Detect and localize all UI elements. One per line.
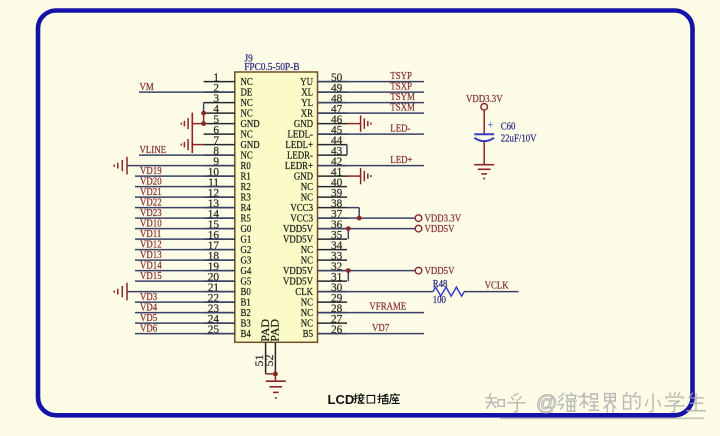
wire VD22 (pin 13)	[135, 207, 235, 209]
wire TSXM (pin 47)	[318, 112, 425, 114]
pin 33 (NC)	[301, 250, 347, 266]
wire VD5 (pin 24)	[135, 322, 235, 324]
pin 22 (B1)	[204, 292, 251, 308]
resistor R48	[433, 287, 464, 296]
pin 31 (VDD5V)	[283, 271, 347, 287]
wire VFRAME (pin 28)	[318, 312, 425, 314]
pin 12 (R3)	[204, 187, 251, 203]
net label VD3	[140, 291, 157, 303]
pin 23 (B2)	[204, 303, 251, 319]
power port VDD5V (pin 36)	[415, 223, 455, 235]
net label VD12	[140, 239, 162, 251]
wire pin 46 to ground	[347, 123, 361, 125]
wire VDD3.3V to C60	[483, 110, 485, 134]
pin 24 (B3)	[204, 313, 251, 329]
junction pin 32	[346, 268, 351, 273]
capacitor C60	[474, 120, 494, 142]
net label VFRAME	[369, 301, 406, 313]
power port VDD3.3V (pin 37)	[415, 213, 462, 225]
power port VDD3.3V (C60)	[466, 93, 503, 110]
value 22uF/10V	[501, 133, 538, 145]
net label VD4	[140, 302, 157, 314]
net label VD7	[372, 322, 389, 334]
pin 6 (NC)	[204, 124, 254, 140]
part type FPC0.5-50P-B	[244, 62, 299, 74]
label R48	[433, 278, 448, 290]
connector J9 body	[235, 72, 318, 342]
svg-text:VD7: VD7	[372, 322, 389, 334]
wire R48 to VCLK	[464, 291, 519, 293]
wire VLINE (pin 8)	[139, 154, 235, 156]
wire LED- (pin 45)	[318, 133, 425, 135]
wire C60 to ground	[483, 142, 485, 165]
net label LED+	[390, 154, 413, 166]
svg-text:TSXM: TSXM	[390, 102, 415, 114]
net label VM	[140, 81, 154, 93]
pin 40 (NC)	[301, 177, 347, 193]
wire VD7 (pin 26)	[318, 333, 425, 335]
wire LED+ (pin 42)	[318, 165, 425, 167]
svg-text:VM: VM	[140, 81, 154, 93]
net label VD6	[140, 323, 157, 335]
wire VD19 (pin 10)	[135, 175, 235, 177]
net label VD19	[140, 165, 162, 177]
wire VD15 (pin 20)	[135, 280, 235, 282]
junction pin 4	[201, 111, 206, 116]
wire pin 9 to ground	[127, 165, 235, 167]
wire pin 21 to ground	[127, 291, 235, 293]
net label VD5	[140, 312, 157, 324]
wire pins 3-4-5 tie	[203, 103, 205, 124]
svg-text:+: +	[487, 120, 493, 132]
ground pin 46	[361, 115, 371, 131]
wire TSYM (pin 48)	[318, 102, 425, 104]
pin 27 (NC)	[301, 313, 347, 329]
pin 1 (NC)	[204, 72, 254, 88]
wire gnd stub pin 7	[192, 144, 203, 146]
wire VD6 (pin 25)	[135, 333, 235, 335]
pin 36 (VDD5V)	[283, 219, 347, 235]
svg-text:C60: C60	[501, 121, 516, 133]
pin 44 (LEDL+)	[285, 135, 347, 151]
ground symbol pin 5	[181, 118, 188, 129]
pin 35 (VDD5V)	[283, 229, 347, 245]
svg-text:22uF/10V: 22uF/10V	[501, 133, 538, 145]
svg-text:100: 100	[433, 294, 446, 306]
pin 14 (R5)	[204, 208, 251, 224]
pin 13 (R4)	[204, 198, 251, 214]
power port VDD5V (pin 32)	[415, 265, 455, 277]
svg-text:VCLK: VCLK	[485, 280, 510, 292]
svg-text:B5: B5	[303, 328, 313, 340]
wire pins 44-43 tie	[346, 145, 348, 156]
wire pin 41 to ground	[347, 175, 361, 177]
pin 19 (G4)	[204, 261, 252, 277]
pin 49 (XL)	[301, 82, 347, 98]
junction pin 36	[346, 226, 351, 231]
svg-text:VD6: VD6	[140, 323, 157, 335]
pin 34 (NC)	[301, 240, 347, 256]
ground pad	[266, 381, 286, 398]
net label VD22	[140, 197, 162, 209]
wire pin 37 to VDD3.3V	[318, 217, 416, 219]
junction pin 5	[201, 121, 206, 126]
svg-text:PAD: PAD	[268, 319, 282, 342]
svg-text:R48: R48	[433, 278, 448, 290]
net label VD11	[140, 228, 161, 240]
wire pins 38-37 tie	[347, 208, 359, 219]
wire VD11 (pin 16)	[135, 238, 235, 240]
net label VCLK	[485, 280, 510, 292]
net label VD15	[140, 270, 162, 282]
pin 30 (CLK)	[295, 282, 347, 298]
pin 7 (GND)	[204, 135, 260, 151]
ground pin 41	[361, 168, 371, 184]
pin 46 (GND)	[294, 114, 347, 130]
pin 11 (R2)	[204, 177, 251, 193]
pin 3 (NC)	[204, 93, 254, 109]
pin 15 (G0)	[204, 219, 252, 235]
pin 29 (NC)	[301, 292, 347, 308]
pin 43 (LEDR-)	[287, 145, 347, 161]
pin 48 (YL)	[301, 93, 347, 109]
net label VD23	[140, 207, 162, 219]
ground pin 9	[114, 157, 127, 175]
net label TSYM	[390, 91, 415, 103]
ground pin 21	[114, 283, 127, 301]
pin 42 (LEDR+)	[285, 156, 347, 172]
net label VD21	[140, 186, 162, 198]
pin 5 (GND)	[204, 114, 260, 130]
wire VD14 (pin 19)	[135, 270, 235, 272]
net label VD10	[140, 218, 162, 230]
pin 10 (R1)	[204, 166, 251, 182]
wire pad junction	[266, 372, 278, 382]
pin 16 (G1)	[204, 229, 252, 245]
svg-text:VDD5V: VDD5V	[425, 265, 456, 277]
pin 21 (B0)	[204, 282, 251, 298]
net label VD14	[140, 260, 162, 272]
pin 2 (DE)	[204, 82, 253, 98]
wire pins 36-35 tie	[347, 229, 349, 240]
ground C60	[474, 165, 494, 179]
wire VM (pin 2)	[139, 91, 235, 93]
pin 41 (GND)	[294, 166, 347, 182]
svg-text:B4: B4	[241, 328, 251, 340]
pin 9 (R0)	[204, 156, 251, 172]
pin 47 (XR)	[301, 103, 347, 119]
wire VD4 (pin 23)	[135, 312, 235, 314]
wire pin 30 to R48	[318, 291, 434, 293]
wire pins 32-31 tie	[347, 271, 349, 282]
wire VD13 (pin 18)	[135, 259, 235, 261]
wire TSXP (pin 49)	[318, 91, 425, 93]
ground symbol pin 7	[181, 139, 188, 150]
ground pins 5-7 rail	[191, 113, 193, 154]
net label VD13	[140, 249, 162, 261]
svg-text:FPC0.5-50P-B: FPC0.5-50P-B	[244, 62, 299, 74]
designator C60	[501, 121, 516, 133]
svg-text:LED+: LED+	[390, 154, 413, 166]
label LCD接口插座	[328, 392, 400, 407]
pin 51 (PAD)	[252, 319, 272, 374]
pin 39 (NC)	[301, 187, 347, 203]
wire gnd stub pin 5	[192, 123, 203, 125]
pin 18 (G3)	[204, 250, 252, 266]
designator J9	[245, 53, 253, 65]
wire TSYP (pin 50)	[318, 81, 425, 83]
net label TSXP	[390, 81, 412, 93]
svg-text:@: @	[536, 392, 557, 415]
wire VD3 (pin 22)	[135, 301, 235, 303]
svg-text:LCD: LCD	[328, 392, 355, 407]
svg-text:LED-: LED-	[390, 123, 410, 135]
wire VD23 (pin 14)	[135, 217, 235, 219]
wire VD21 (pin 12)	[135, 196, 235, 198]
pin 26 (B5)	[303, 324, 347, 340]
svg-text:52: 52	[262, 355, 276, 367]
wire VD12 (pin 17)	[135, 249, 235, 251]
pin 45 (LEDL-)	[287, 124, 347, 140]
net label TSYP	[390, 70, 412, 82]
net label LED-	[390, 123, 410, 135]
wire pin 36 to VDD5V	[318, 228, 416, 230]
svg-text:VFRAME: VFRAME	[369, 301, 406, 313]
pin 8 (NC)	[204, 145, 254, 161]
svg-text:VD15: VD15	[140, 270, 162, 282]
pin 20 (G5)	[204, 271, 252, 287]
pin 17 (G2)	[204, 240, 252, 256]
value 100	[433, 294, 446, 306]
wire VD10 (pin 15)	[135, 228, 235, 230]
pin 38 (VCC3)	[290, 198, 347, 214]
pin 25 (B4)	[204, 324, 251, 340]
pin 50 (YU)	[300, 72, 347, 88]
pin 37 (VCC3)	[290, 208, 347, 224]
svg-text:VDD5V: VDD5V	[425, 223, 456, 235]
svg-text:VLINE: VLINE	[140, 144, 167, 156]
net label VLINE	[140, 144, 167, 156]
net label VD20	[140, 176, 162, 188]
junction pin 37	[357, 216, 362, 221]
pin 28 (NC)	[301, 303, 347, 319]
net label TSXM	[390, 102, 415, 114]
pin 32 (VDD5V)	[283, 261, 347, 277]
pin 52 (PAD)	[262, 319, 282, 374]
wire pin 32 to VDD5V	[318, 270, 416, 272]
pin 4 (NC)	[204, 103, 254, 119]
wire VD20 (pin 11)	[135, 186, 235, 188]
